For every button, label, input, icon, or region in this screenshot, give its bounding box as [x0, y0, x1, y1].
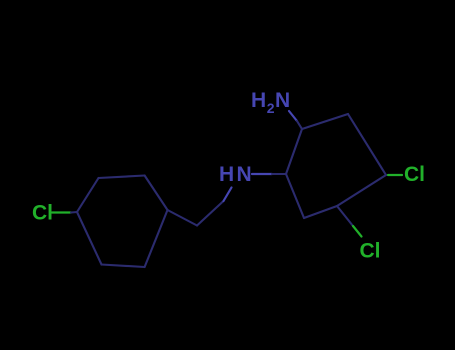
- right benzene ring: [286, 114, 386, 218]
- ring2 edge F-A: [286, 174, 304, 218]
- bond ring1 C4 - CH2: [168, 210, 198, 226]
- svg-text:Cl: Cl: [404, 163, 425, 186]
- ring1 edge C5-C6: [102, 265, 145, 268]
- ring2 edge A-B: [286, 129, 302, 174]
- ring1 edge C2-C3: [99, 176, 145, 179]
- svg-text:N: N: [275, 89, 290, 112]
- bond ring2 D - Cl (green): [388, 174, 402, 176]
- svg-text:2: 2: [267, 100, 275, 116]
- bond Cl - ring1 C1 (dim half): [71, 211, 77, 214]
- ring2 edge D-E: [337, 175, 386, 206]
- ring2 edge C-D: [348, 114, 386, 175]
- bond H2N - ring2 B (dim half): [297, 121, 302, 129]
- bond ring2 E - Cl (dim half): [337, 206, 353, 226]
- ring2 edge B-C: [302, 114, 348, 129]
- svg-text:Cl: Cl: [360, 240, 381, 263]
- svg-text:Cl: Cl: [32, 202, 53, 225]
- bond CH2 - N (bright half near label): [224, 188, 232, 202]
- ring1 edge C6-C1: [77, 212, 102, 265]
- svg-text:H: H: [251, 89, 266, 112]
- bond N - ring2 A (dim half): [272, 173, 286, 175]
- ring2 edge E-F: [304, 206, 337, 218]
- svg-text:H: H: [219, 163, 234, 186]
- ring1 edge C1-C2: [77, 178, 99, 212]
- bond N - ring2 A (bright half): [252, 173, 272, 175]
- ring1 edge C4-C5: [145, 210, 168, 267]
- bond CH2 - N (dim half): [197, 201, 224, 226]
- bond H2N - ring2 B (bright half): [289, 111, 297, 121]
- ring1 edge C3-C4: [145, 176, 168, 211]
- bond Cl - ring1 C1 (green half): [52, 211, 71, 213]
- bond ring2 E - Cl (green half): [353, 226, 362, 237]
- left benzene ring: [77, 176, 168, 268]
- svg-text:N: N: [237, 163, 252, 186]
